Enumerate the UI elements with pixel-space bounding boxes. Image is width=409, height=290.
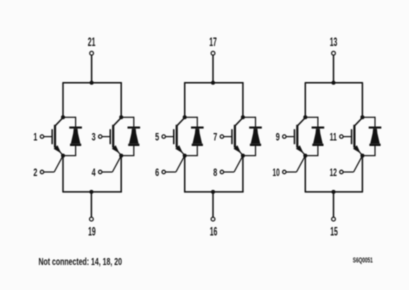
pin 2 label: [33, 167, 37, 179]
transistor Q4 emitter lead: [235, 147, 243, 156]
wire sense lead pin 2: [44, 171, 54, 173]
transistor Q2 emitter arrow: [112, 145, 120, 153]
wire left collector rail: [62, 83, 64, 118]
svg-text:13: 13: [330, 37, 338, 49]
terminal pin 11: [340, 135, 344, 139]
transistor Q2 body bar: [112, 125, 114, 148]
terminal pin 8: [220, 170, 224, 174]
junction top bus 21: [90, 81, 94, 85]
wire top bus node 21: [62, 82, 122, 84]
svg-text:10: 10: [273, 167, 280, 179]
transistor Q3 emitter lead: [177, 147, 185, 156]
wire gate lead pin 5: [166, 136, 174, 138]
wire bottom bus node 15: [305, 191, 363, 193]
terminal pin 4: [98, 170, 102, 174]
transistor Q1 emitter lead: [55, 147, 63, 156]
terminal 15: [332, 217, 336, 221]
terminal 19: [90, 217, 94, 221]
diode D5 cathode bar: [312, 127, 325, 129]
transistor Q6 emitter lead: [355, 147, 363, 156]
wire diode D3 top lead: [185, 117, 198, 128]
terminal 16: [211, 217, 215, 221]
svg-text:16: 16: [210, 226, 218, 238]
wire terminal 21 stub: [91, 55, 93, 83]
transistor Q6 body bar: [353, 125, 355, 148]
diode D2 anode triangle: [128, 129, 139, 146]
wire diode D4 top lead: [243, 117, 256, 128]
wire sense lead pin 2 diagonal: [54, 156, 63, 172]
wire terminal 16 stub: [212, 192, 214, 217]
junction Q3 collector node: [183, 115, 187, 119]
transistor Q5 gate bar: [294, 129, 296, 144]
junction Q4 emitter node: [241, 154, 245, 158]
terminal 16 label: [210, 226, 218, 238]
transistor Q3 emitter arrow: [175, 145, 183, 153]
wire top bus node 17: [184, 82, 244, 84]
wire right collector rail: [361, 83, 363, 118]
terminal pin 5: [162, 135, 166, 139]
svg-text:15: 15: [330, 226, 338, 238]
wire terminal 17 stub: [212, 55, 214, 83]
terminal 19 label: [88, 226, 96, 238]
diode D4 anode triangle: [250, 129, 261, 146]
transistor Q2 gate bar: [110, 129, 112, 144]
junction Q5 collector node: [303, 115, 307, 119]
transistor Q6 collector lead: [355, 118, 363, 126]
svg-text:3: 3: [92, 132, 96, 144]
wire diode D1 top lead: [63, 117, 76, 128]
wire gate lead pin 9: [286, 136, 294, 138]
junction Q6 emitter node: [360, 154, 364, 158]
wire gate lead pin 3: [102, 136, 110, 138]
transistor Q4 body bar: [234, 125, 236, 148]
wire diode D6 bottom lead: [362, 146, 375, 156]
terminal pin 1: [40, 135, 44, 139]
svg-text:S6Q0051: S6Q0051: [353, 256, 373, 265]
terminal 13 label: [330, 37, 338, 49]
wire diode D3 bottom lead: [185, 146, 198, 156]
svg-text:17: 17: [209, 37, 217, 49]
pin 5 label: [155, 132, 159, 144]
svg-text:7: 7: [213, 132, 217, 144]
pin 4 label: [92, 167, 97, 179]
wire diode D4 bottom lead: [243, 146, 256, 156]
svg-text:2: 2: [33, 167, 37, 179]
transistor Q4 collector lead: [235, 118, 243, 126]
wire right collector rail: [242, 83, 244, 118]
wire sense lead pin 10: [286, 171, 296, 173]
transistor Q5 emitter lead: [297, 147, 305, 156]
pin 7 label: [213, 132, 217, 144]
transistor Q1 emitter arrow: [54, 145, 62, 153]
transistor Q2 emitter lead: [113, 147, 121, 156]
wire gate lead pin 1: [44, 136, 52, 138]
wire diode D2 bottom lead: [121, 146, 134, 156]
terminal pin 3: [98, 135, 102, 139]
pin 6 label: [155, 167, 159, 179]
pin 8 label: [213, 167, 217, 179]
terminal 15 label: [330, 226, 338, 238]
note not-connected pins: [39, 257, 123, 268]
terminal pin 10: [283, 170, 287, 174]
svg-text:21: 21: [88, 37, 96, 49]
svg-text:Not connected: 14, 18, 20: Not connected: 14, 18, 20: [39, 257, 123, 268]
junction Q2 emitter node: [119, 154, 123, 158]
svg-text:1: 1: [33, 132, 37, 144]
pin 12 label: [330, 167, 337, 179]
diode D5 anode triangle: [312, 129, 323, 146]
junction Q5 emitter node: [303, 154, 307, 158]
wire left collector rail: [184, 83, 186, 118]
svg-text:8: 8: [213, 167, 217, 179]
pin 1 label: [33, 132, 37, 144]
wire right emitter rail: [120, 156, 122, 192]
svg-text:5: 5: [155, 132, 159, 144]
svg-text:19: 19: [88, 226, 96, 238]
wire sense lead pin 8: [224, 171, 234, 173]
junction Q1 emitter node: [61, 154, 65, 158]
wire sense lead pin 4: [102, 171, 112, 173]
wire diode D2 top lead: [121, 117, 134, 128]
wire sense lead pin 12 diagonal: [354, 156, 363, 172]
transistor Q5 emitter arrow: [296, 145, 304, 153]
terminal pin 12: [340, 170, 344, 174]
wire bottom bus node 16: [184, 191, 244, 193]
wire left emitter rail: [304, 156, 306, 192]
diode D3 anode triangle: [192, 129, 203, 146]
transistor Q1 body bar: [54, 125, 56, 148]
wire diode D5 bottom lead: [305, 146, 318, 156]
diode D6 cathode bar: [369, 127, 382, 129]
diode D4 cathode bar: [249, 127, 262, 129]
wire right emitter rail: [242, 156, 244, 192]
transistor Q2 collector lead: [113, 118, 121, 126]
wire left emitter rail: [184, 156, 186, 192]
diode D2 cathode bar: [128, 127, 141, 129]
terminal 17 label: [209, 37, 217, 49]
junction bottom bus 15: [332, 190, 336, 194]
svg-text:12: 12: [330, 167, 337, 179]
wire left emitter rail: [62, 156, 64, 192]
diode D3 cathode bar: [191, 127, 204, 129]
terminal 21: [90, 51, 94, 55]
wire sense lead pin 4 diagonal: [112, 156, 121, 172]
junction Q2 collector node: [119, 115, 123, 119]
diode D1 cathode bar: [69, 127, 82, 129]
diode D1 anode triangle: [70, 129, 81, 146]
svg-text:11: 11: [330, 132, 337, 144]
wire gate lead pin 7: [224, 136, 232, 138]
transistor Q4 gate bar: [231, 129, 233, 144]
junction Q1 collector node: [61, 115, 65, 119]
svg-text:6: 6: [155, 167, 159, 179]
wire gate lead pin 11: [343, 136, 351, 138]
wire sense lead pin 12: [343, 171, 353, 173]
wire top bus node 13: [305, 82, 363, 84]
terminal pin 9: [283, 135, 287, 139]
pin 3 label: [92, 132, 96, 144]
terminal pin 7: [220, 135, 224, 139]
wire right emitter rail: [361, 156, 363, 192]
svg-text:4: 4: [92, 167, 97, 179]
junction Q6 collector node: [360, 115, 364, 119]
wire sense lead pin 8 diagonal: [234, 156, 243, 172]
transistor Q6 emitter arrow: [353, 145, 361, 153]
wire terminal 15 stub: [333, 192, 335, 217]
pin 10 label: [273, 167, 280, 179]
junction Q4 collector node: [241, 115, 245, 119]
terminal pin 2: [40, 170, 44, 174]
transistor Q5 collector lead: [297, 118, 305, 126]
transistor Q5 body bar: [296, 125, 298, 148]
junction top bus 17: [211, 81, 215, 85]
junction bottom bus 19: [89, 190, 93, 194]
terminal 13: [332, 51, 336, 55]
transistor Q1 collector lead: [55, 118, 63, 126]
wire diode D1 bottom lead: [63, 146, 76, 156]
wire terminal 13 stub: [333, 55, 335, 83]
transistor Q3 gate bar: [173, 129, 175, 144]
terminal pin 6: [162, 170, 166, 174]
wire sense lead pin 6: [166, 171, 176, 173]
wire diode D5 top lead: [305, 117, 318, 128]
wire right collector rail: [120, 83, 122, 118]
wire left collector rail: [304, 83, 306, 118]
wire sense lead pin 6 diagonal: [176, 156, 185, 172]
junction Q3 emitter node: [183, 154, 187, 158]
pin 9 label: [276, 132, 280, 144]
svg-text:9: 9: [276, 132, 280, 144]
transistor Q6 gate bar: [351, 129, 353, 144]
transistor Q1 gate bar: [51, 129, 53, 144]
junction top bus 13: [332, 81, 336, 85]
pin 11 label: [330, 132, 337, 144]
transistor Q3 collector lead: [177, 118, 185, 126]
wire terminal 19 stub: [90, 192, 92, 217]
wire sense lead pin 10 diagonal: [297, 156, 306, 172]
transistor Q3 body bar: [176, 125, 178, 148]
wire bottom bus node 19: [62, 191, 122, 193]
diode D6 anode triangle: [369, 129, 380, 146]
junction bottom bus 16: [211, 190, 215, 194]
transistor Q4 emitter arrow: [234, 145, 242, 153]
wire diode D6 top lead: [362, 117, 375, 128]
terminal 17: [211, 51, 215, 55]
terminal 21 label: [88, 37, 96, 49]
drawing number S6Q0051: [353, 256, 373, 265]
